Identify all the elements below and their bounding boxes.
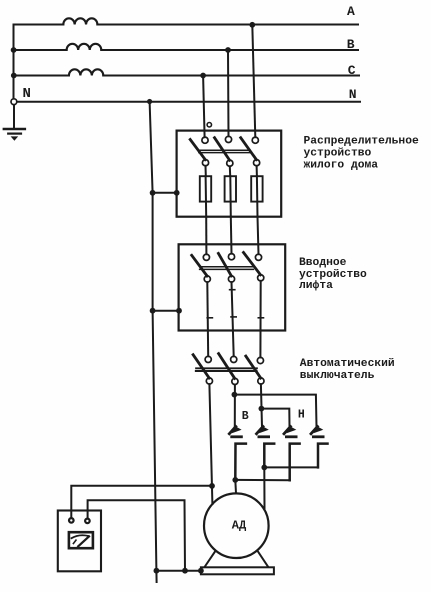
label A [347,4,355,19]
svg-text:жилого дома: жилого дома [304,159,379,171]
branch wire to contact K4 [234,395,316,427]
breaker QF pole 2 [219,354,238,385]
wire U1 to U2 phase 1 [205,217,207,255]
inductor on phase C [69,69,103,75]
fixed contact bracket K3 [290,444,300,481]
fixed contact bracket K1 [235,444,246,480]
label N (right) [349,87,357,102]
switch QS1 pole 3 [241,137,260,166]
bottom earthing link [156,570,201,572]
svg-text:N: N [23,86,31,102]
motor stand [205,551,268,566]
junction dot on wire 2 [232,392,238,398]
label: Вводное устройство лифта [299,257,367,292]
svg-text:A: A [347,4,355,19]
wire QS2 pole2 down [232,282,234,356]
svg-text:Н: Н [298,408,305,421]
tap from phase B [225,47,231,136]
switch QS1 pole 1 [190,137,208,166]
fuse F1 [200,176,211,216]
tick on wire 3 [258,317,263,319]
label В [242,410,249,423]
bus line B [14,49,359,51]
link K1-K3 [232,477,289,483]
breaker QF pole 1 [193,355,212,384]
junction dot on B [11,47,17,53]
voltmeter face [69,532,93,548]
label N (left) [23,86,31,102]
junction dot voltmeter tap [209,483,215,489]
motor M circle [204,493,269,558]
switch QS2 pole 2 [218,253,234,282]
breaker QF pole 3 [246,356,264,384]
wire QS2 pole3 down [259,281,261,358]
junction dot at motor base [198,568,204,574]
contactor contact K1 moving [229,426,241,437]
motor base plate [201,567,274,574]
svg-text:N: N [349,87,357,102]
label Н [298,408,305,421]
contactor contact K3 moving [284,426,296,437]
label АД [232,518,247,532]
bus line A [14,24,359,26]
PEN link to box U2 [150,308,182,314]
voltmeter PV box [58,511,101,572]
voltmeter terminal 1 [69,518,74,523]
fixed contact bracket K4 [318,444,328,468]
svg-text:В: В [242,410,249,423]
bus line C [14,75,360,77]
switch QS2 pole 1 [192,254,211,282]
enclosure box U2 (lift input device) [179,244,286,330]
fuse F2 [225,176,236,216]
contactor contact K2 moving [257,426,269,437]
PEN link to box U1 [150,190,180,196]
svg-text:устройство: устройство [304,147,372,159]
voltmeter wire 2 [88,500,185,570]
label B [347,37,355,52]
label: Автоматический выключатель [300,358,395,382]
inductor on phase A [63,18,97,24]
wire QS2 pole1 down [206,282,209,356]
svg-text:лифта: лифта [299,279,333,292]
junction dot N bottom [154,568,160,574]
wire pole3 to fuse [256,166,258,176]
bus line N [17,101,360,103]
junction dot meter wire 2 [182,568,188,574]
tap from phase C [200,73,206,138]
fixed contact bracket K2 [264,444,274,468]
N feeder riser [150,102,157,583]
left earthing riser wire [13,25,16,128]
switch QS2 pole 3 [244,253,264,281]
wire QF2 down to contact K1 [234,385,236,427]
label C [348,63,356,78]
branch wire to contact K3 [261,409,289,427]
voltmeter wire 1 [71,486,212,518]
fuse F3 [251,176,262,216]
svg-text:Распределительное: Распределительное [304,135,419,147]
linkage bar QS2 [200,267,254,270]
svg-text:B: B [347,37,355,52]
wire U1 to U2 phase 2 [230,217,233,254]
wire pole1 to fuse [205,166,207,176]
svg-text:C: C [348,63,356,78]
label: Распределительное устройство жилого дома [304,135,419,171]
inductor on phase B [67,44,102,50]
wire QF3 down to contact K2 [261,384,262,427]
junction dot on wire 3 [259,406,265,412]
tap from phase A [249,22,255,137]
wire to motor top [234,480,237,493]
ground [4,129,25,141]
terminal circle on box U1 top [207,123,211,127]
switch QS1 pole 2 [215,136,233,166]
svg-text:выключатель: выключатель [300,370,375,382]
contactor contact K4 moving [311,426,323,437]
svg-text:Вводное: Вводное [299,257,347,269]
wire pole2 to fuse [229,166,231,176]
junction dot on C [11,73,17,79]
wire QF1 to motor [209,384,212,504]
wire to motor right [263,467,265,508]
linkage bar QS1 [199,150,250,152]
enclosure box U1 (distribution device) [177,131,282,217]
tick on wire 1 [207,317,212,319]
linkage bar QF [196,368,257,371]
tick on wire 2a [230,289,235,291]
voltmeter terminal 2 [85,519,90,524]
junction dot N feeder top [147,99,152,104]
terminal circle at N [11,99,17,105]
link K2-K4 [261,465,318,471]
tick on wire 2b [231,316,236,318]
svg-text:Автоматический: Автоматический [300,358,395,370]
wire U1 to U2 phase 3 [258,217,259,255]
svg-text:АД: АД [232,518,247,532]
